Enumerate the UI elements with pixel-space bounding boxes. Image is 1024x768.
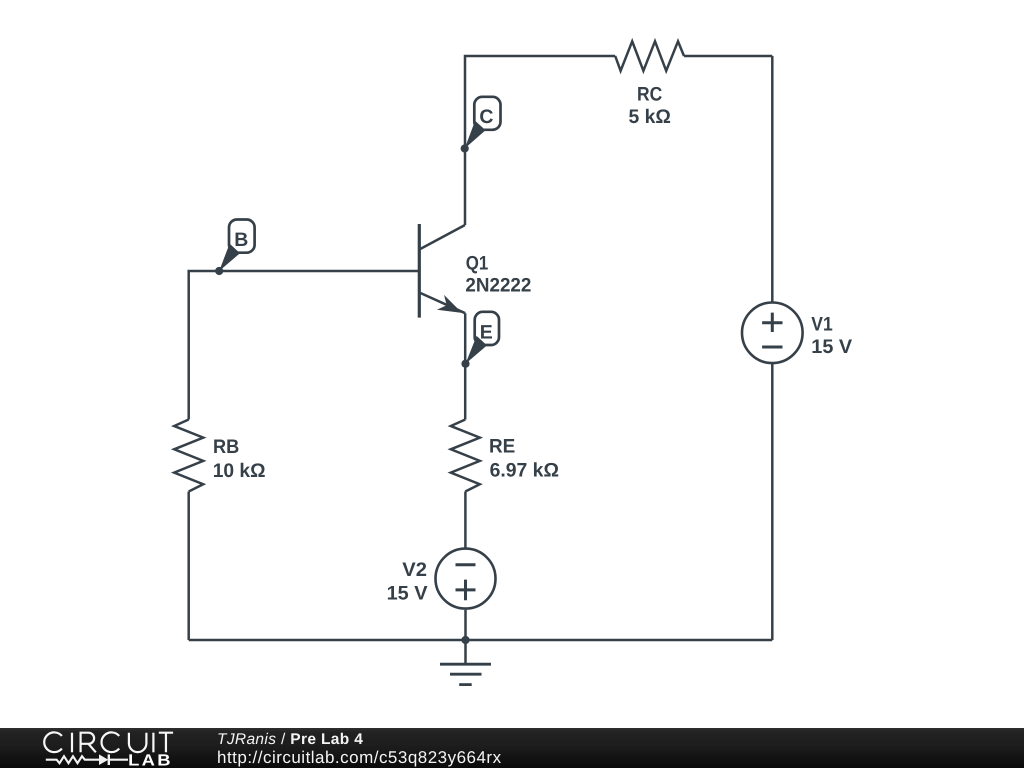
transistor Q1 emitter diagonal (419, 293, 465, 314)
svg-text:6.97 kΩ: 6.97 kΩ (490, 459, 559, 481)
node E (461, 312, 499, 368)
logo resistor-diode glyph (46, 754, 128, 765)
label RC value (629, 83, 671, 128)
logo word CIRCUIT (44, 732, 173, 752)
label V2 (387, 559, 428, 604)
svg-text:RB: RB (213, 436, 239, 458)
footer url line (217, 750, 502, 765)
svg-text:RE: RE (489, 435, 515, 457)
wire left upper + base rail (189, 271, 420, 420)
label RB value (213, 436, 266, 482)
svg-text:Q1: Q1 (466, 252, 489, 274)
footer bar (0, 728, 1024, 768)
CircuitLab logo (0, 728, 200, 768)
footer credit line (217, 732, 363, 747)
svg-text:15 V: 15 V (387, 583, 428, 605)
svg-text:V2: V2 (402, 559, 427, 581)
wire top rail right segment (684, 55, 772, 58)
label RE value (489, 435, 559, 481)
resistor RB (174, 420, 203, 492)
voltage source V1 (742, 303, 803, 364)
node B (215, 220, 255, 276)
wire emitter vertical (464, 313, 467, 419)
transistor Q1 base bar (418, 224, 421, 318)
wire left lower (187, 492, 190, 641)
label Q1 (465, 252, 531, 296)
junction dot bottom (461, 636, 469, 644)
wire right lower (771, 363, 774, 640)
label V1 (811, 313, 852, 358)
resistor RC (615, 41, 684, 71)
wire top (collector vertical to top rail left segment) (465, 56, 615, 225)
transistor Q1 collector diagonal (419, 225, 465, 250)
svg-text:10 kΩ: 10 kΩ (213, 460, 266, 482)
transistor Q1 emitter arrow (437, 295, 462, 313)
svg-text:RC: RC (637, 83, 662, 105)
svg-text:C: C (479, 106, 493, 128)
ground (440, 640, 491, 685)
svg-text:E: E (480, 322, 493, 344)
svg-text:LAB: LAB (128, 752, 173, 768)
voltage source V2 (436, 549, 496, 609)
svg-text:B: B (234, 229, 248, 251)
wire bottom rail (189, 639, 773, 642)
wire RE to V2 (464, 492, 467, 549)
resistor RE (451, 420, 480, 492)
svg-text:V1: V1 (811, 313, 832, 335)
node C (461, 97, 501, 153)
wire V2 to bottom rail (464, 610, 467, 640)
wire right upper (771, 56, 774, 303)
svg-text:15 V: 15 V (811, 336, 852, 358)
svg-text:5 kΩ: 5 kΩ (629, 106, 671, 128)
svg-text:2N2222: 2N2222 (465, 275, 531, 297)
